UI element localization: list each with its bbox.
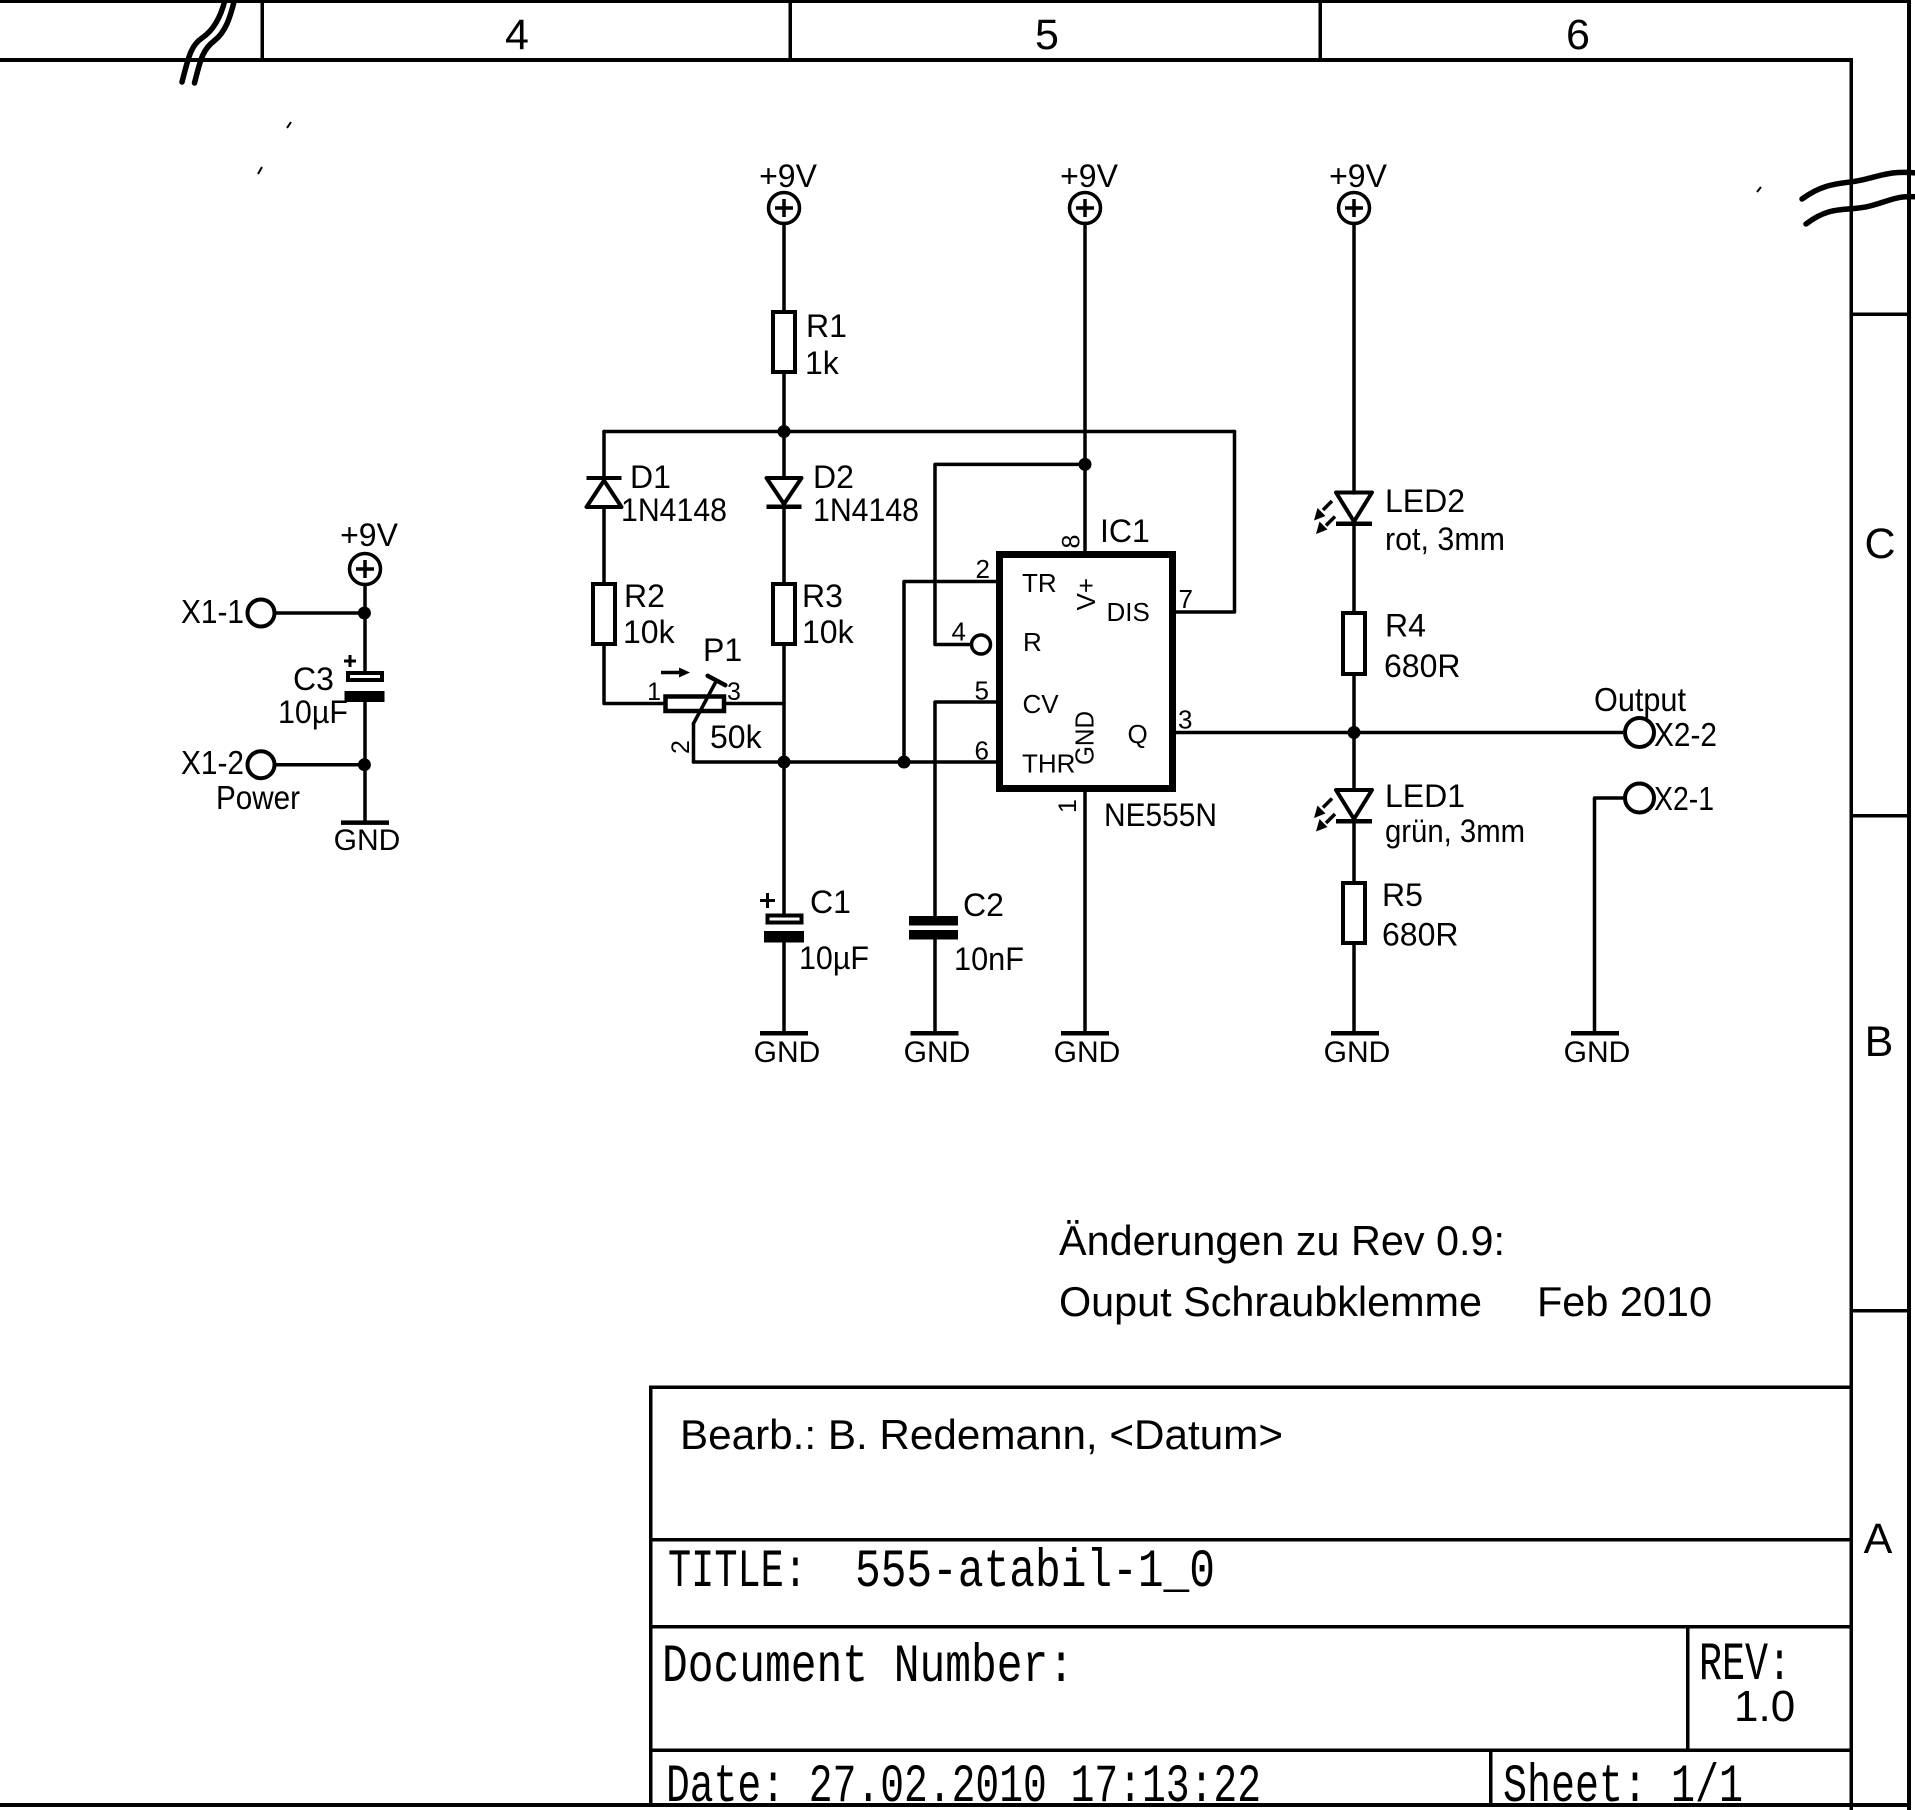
wire R1 to node	[782, 374, 786, 432]
svg-text:GND: GND	[1070, 711, 1100, 765]
junction dot V+ tie	[1079, 458, 1092, 471]
capacitor C2	[909, 887, 1024, 977]
svg-text:1k: 1k	[805, 345, 840, 381]
capacitor C1 (polarized)	[760, 884, 869, 976]
wire X1-2 to C3 node	[275, 763, 365, 767]
svg-text:Änderungen zu Rev 0.9:: Änderungen zu Rev 0.9:	[1059, 1217, 1505, 1264]
ground symbol LED	[1324, 1031, 1391, 1069]
wire C1 branch down	[782, 762, 786, 914]
wire D1 to R2	[602, 509, 606, 582]
svg-text:R1: R1	[806, 308, 847, 344]
svg-text:Ouput Schraubklemme: Ouput Schraubklemme	[1059, 1278, 1482, 1325]
svg-text:1: 1	[647, 678, 661, 706]
svg-text:5: 5	[975, 676, 989, 706]
wire P1 pin3	[726, 702, 784, 706]
svg-text:NE555N: NE555N	[1104, 797, 1217, 833]
resistor R5	[1343, 883, 1365, 943]
svg-text:R2: R2	[624, 578, 665, 614]
wire R3 through P1 pin3 down to THR rail	[782, 646, 786, 762]
svg-text:Q: Q	[1128, 719, 1148, 749]
svg-text:680R: 680R	[1384, 648, 1461, 684]
connector X2-1	[1625, 784, 1654, 813]
svg-text:GND: GND	[1054, 1036, 1121, 1069]
power +9V supply 3 (LED column)	[1339, 193, 1370, 224]
svg-text:GND: GND	[334, 824, 401, 857]
stray speck 3	[1757, 187, 1761, 192]
sheet break squiggle right	[1802, 172, 1915, 224]
wire IC pin 1 to GND	[1083, 792, 1087, 1031]
svg-text:1N4148: 1N4148	[621, 492, 727, 528]
frame row divider C	[1851, 313, 1911, 317]
svg-text:TR: TR	[1022, 568, 1057, 598]
sheet break squiggle top-left	[182, 0, 235, 83]
wire THR bottom rail	[694, 760, 997, 764]
svg-text:C3: C3	[293, 661, 334, 697]
connector X1-1	[248, 600, 275, 627]
svg-text:+9V: +9V	[1329, 158, 1387, 194]
wire +9V to LED2	[1352, 224, 1356, 494]
ground symbol C2	[904, 1031, 971, 1069]
svg-text:3: 3	[727, 678, 741, 706]
svg-text:Feb 2010: Feb 2010	[1537, 1278, 1712, 1325]
wire +9V to R1	[782, 224, 786, 311]
wire C1 to GND	[782, 943, 786, 1032]
svg-text:X1-1: X1-1	[181, 593, 244, 630]
wire output node to LED1	[1352, 733, 1356, 791]
wire C2 to GND	[933, 940, 937, 1032]
svg-text:Document Number:: Document Number:	[662, 1637, 1074, 1698]
wire P1 wiper to THR rail	[692, 724, 696, 763]
wire CV pin 5 to C2	[935, 702, 996, 916]
frame border top edge	[0, 0, 1911, 3]
resistor R2	[593, 584, 615, 644]
svg-text:LED1: LED1	[1385, 778, 1465, 814]
power +9V supply 4 (X1 column)	[350, 554, 381, 585]
svg-text:8: 8	[1058, 535, 1086, 549]
svg-text:B: B	[1865, 1018, 1894, 1066]
wire X1-1 to +9V node	[275, 611, 365, 615]
power +9V supply 2 (IC column)	[1070, 193, 1101, 224]
junction dot R1 rail	[778, 425, 791, 438]
svg-text:+9V: +9V	[1060, 158, 1118, 194]
wire R2 to P1 pin1	[604, 646, 664, 704]
LED1	[1314, 778, 1525, 849]
wire Q pin 3 output	[1176, 731, 1625, 735]
svg-text:+9V: +9V	[340, 517, 398, 553]
svg-text:10µF: 10µF	[278, 694, 348, 730]
svg-text:IC1: IC1	[1100, 513, 1150, 549]
svg-text:THR: THR	[1022, 749, 1075, 779]
svg-text:CV: CV	[1023, 689, 1060, 719]
svg-text:Bearb.: B. Redemann, <Datum>: Bearb.: B. Redemann, <Datum>	[680, 1411, 1283, 1458]
frame row divider B	[1851, 814, 1911, 818]
wire R5 to GND	[1352, 945, 1356, 1031]
wire R pin 4 tie to V+	[935, 464, 1085, 644]
svg-text:TITLE:: TITLE:	[668, 1542, 807, 1603]
frame inner right line	[1850, 58, 1854, 1810]
svg-text:R4: R4	[1385, 608, 1426, 644]
wire D2 to R3	[782, 509, 786, 582]
stray speck 1	[287, 122, 291, 128]
svg-text:R5: R5	[1382, 877, 1423, 913]
title block outline	[649, 1386, 1851, 1806]
svg-text:X1-2: X1-2	[181, 744, 244, 781]
svg-text:C2: C2	[963, 887, 1004, 923]
potentiometer P1	[647, 632, 763, 755]
IC body NE555	[1000, 555, 1173, 789]
svg-text:6: 6	[975, 736, 989, 766]
wire R4 to output node	[1352, 676, 1356, 733]
svg-text:50k: 50k	[710, 719, 763, 755]
svg-text:D1: D1	[630, 459, 671, 495]
svg-text:10k: 10k	[623, 614, 676, 650]
svg-text:2: 2	[667, 740, 695, 754]
svg-text:5: 5	[1035, 11, 1059, 59]
junction dot X1-2	[358, 758, 371, 771]
svg-text:GND: GND	[904, 1036, 971, 1069]
svg-text:P1: P1	[703, 632, 742, 668]
power +9V supply 1 (R1 column)	[769, 193, 800, 224]
svg-text:GND: GND	[1324, 1036, 1391, 1069]
svg-text:A: A	[1864, 1515, 1893, 1563]
junction dot C1 branch	[778, 756, 791, 769]
ground symbol IC	[1054, 1031, 1121, 1069]
frame border bottom edge	[0, 1803, 1911, 1807]
wire rail down to D1	[602, 432, 606, 477]
wire DIS pin 7 to rail	[1176, 432, 1235, 613]
svg-text:D2: D2	[813, 459, 854, 495]
svg-text:Sheet: 1/1: Sheet: 1/1	[1503, 1757, 1743, 1810]
ground symbol X1	[334, 820, 401, 857]
pin 4 inverter bubble	[972, 635, 991, 654]
svg-text:grün, 3mm: grün, 3mm	[1385, 813, 1525, 849]
frame column divider 3	[1319, 0, 1323, 58]
wire top horizontal rail	[604, 430, 1235, 434]
svg-text:GND: GND	[1564, 1036, 1631, 1069]
svg-text:1.0: 1.0	[1734, 1682, 1795, 1731]
svg-text:C: C	[1864, 520, 1895, 568]
wire LED1 to R5	[1352, 824, 1356, 882]
svg-text:GND: GND	[754, 1036, 821, 1069]
svg-text:555-atabil-1_0: 555-atabil-1_0	[855, 1542, 1215, 1603]
svg-text:R3: R3	[802, 578, 843, 614]
svg-text:6: 6	[1566, 11, 1590, 59]
ground symbol C1	[754, 1031, 821, 1069]
connector X2-2	[1625, 718, 1654, 747]
svg-text:Date: 27.02.2010 17:13:22: Date: 27.02.2010 17:13:22	[666, 1757, 1261, 1810]
wire TR pin 2	[904, 582, 996, 763]
diode D1 (cathode up)	[587, 459, 728, 528]
svg-text:3: 3	[1178, 705, 1192, 735]
junction dot output LED column	[1348, 726, 1361, 739]
svg-text:Power: Power	[216, 779, 300, 816]
svg-text:R: R	[1023, 627, 1042, 657]
svg-text:10µF: 10µF	[799, 940, 869, 976]
frame border right edge	[1907, 0, 1911, 1810]
svg-text:rot, 3mm: rot, 3mm	[1385, 521, 1505, 557]
svg-text:LED2: LED2	[1385, 483, 1465, 519]
capacitor C3 (polarized)	[278, 655, 385, 730]
svg-text:10nF: 10nF	[954, 941, 1024, 977]
ground symbol X2	[1564, 1031, 1631, 1069]
svg-text:Output: Output	[1594, 681, 1686, 718]
stray speck 2	[258, 167, 262, 174]
svg-text:V+: V+	[1071, 578, 1101, 611]
junction dot X1-1	[358, 607, 371, 620]
svg-text:4: 4	[505, 11, 529, 59]
svg-text:4: 4	[952, 617, 966, 647]
svg-text:680R: 680R	[1382, 917, 1459, 953]
resistor R3	[773, 584, 795, 644]
junction dot TR branch	[898, 756, 911, 769]
wire +9V down to C3	[363, 585, 367, 672]
diode D2 (cathode down)	[767, 459, 920, 528]
svg-text:2: 2	[976, 554, 990, 584]
svg-text:1N4148: 1N4148	[813, 492, 919, 528]
frame column divider 2	[789, 0, 793, 58]
svg-text:DIS: DIS	[1107, 597, 1150, 627]
resistor R1	[773, 312, 795, 372]
wire LED2 to R4	[1352, 526, 1356, 611]
svg-text:7: 7	[1179, 584, 1193, 614]
svg-text:X2-1: X2-1	[1654, 780, 1714, 817]
LED2	[1314, 483, 1505, 557]
wire X2-1 to GND	[1595, 798, 1626, 1031]
resistor R4	[1343, 613, 1365, 674]
frame column divider 1	[261, 0, 265, 58]
frame row divider A	[1851, 1309, 1911, 1313]
svg-text:10k: 10k	[802, 614, 855, 650]
svg-text:C1: C1	[810, 884, 851, 920]
wire C3 to GND	[363, 702, 367, 820]
wire rail down to D2	[782, 432, 786, 479]
frame top strip bottom line	[0, 58, 1853, 62]
svg-text:1: 1	[1054, 799, 1082, 813]
connector X1-2	[248, 751, 275, 778]
svg-text:X2-2: X2-2	[1654, 716, 1717, 753]
wire +9V to IC pin 8	[1083, 224, 1087, 552]
svg-text:+9V: +9V	[759, 158, 817, 194]
